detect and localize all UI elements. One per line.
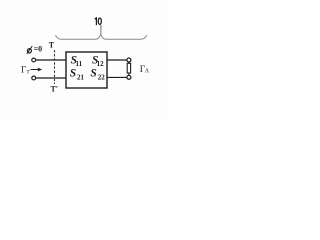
svg-text:T′: T′ [51,85,59,94]
wire resistor top [128,62,130,64]
two-port network box [66,52,107,88]
svg-text:=0: =0 [34,45,43,54]
svg-text:21: 21 [77,73,85,81]
terminal port1 top [32,58,36,62]
terminal port1 bottom [32,76,36,80]
svg-text:12: 12 [97,60,105,68]
load resistor [127,63,130,73]
svg-text:T: T [49,41,55,50]
svg-text:S: S [90,68,96,80]
label phi = 0 [27,49,31,53]
svg-text:Λ: Λ [145,69,150,75]
wire port1 top [36,59,66,61]
arrow Gamma_T [31,69,41,71]
wire port1 bottom [36,77,66,79]
brace over network [56,34,147,39]
wire port2 bottom [107,76,127,78]
svg-text:22: 22 [98,73,106,81]
svg-text:11: 11 [76,60,83,68]
label 10 [95,18,96,25]
terminal port2 top [127,58,131,62]
wire port2 top [107,59,127,61]
wire resistor bottom [128,73,130,75]
svg-text:S: S [70,68,76,80]
terminal port2 bottom [127,75,131,79]
reference plane dashed line T-T' [54,50,56,84]
leader line from 10 to brace [100,25,102,34]
